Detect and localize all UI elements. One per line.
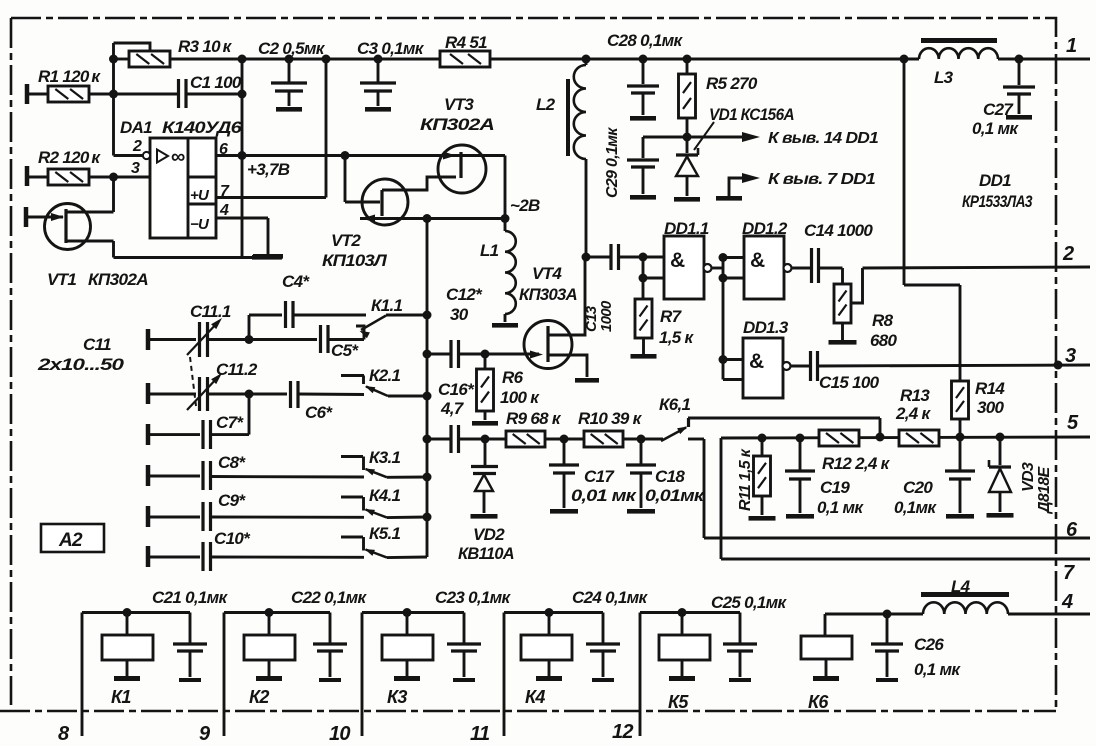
svg-text:R5 270: R5 270 [706,74,758,93]
svg-text:+U: +U [190,187,210,204]
svg-text:С19: С19 [820,478,850,497]
svg-text:С14 1000: С14 1000 [804,221,873,240]
svg-text:VT1: VT1 [47,270,76,289]
svg-text:R6: R6 [502,368,524,387]
svg-text:К выв. 7 DD1: К выв. 7 DD1 [768,171,876,188]
svg-text:R11 1,5 к: R11 1,5 к [737,448,754,511]
svg-text:С25 0,1мк: С25 0,1мк [711,593,788,612]
svg-text:К2: К2 [249,687,269,707]
svg-text:3: 3 [1065,345,1076,367]
svg-text:680: 680 [870,331,898,350]
svg-text:R1 120 к: R1 120 к [38,67,101,86]
svg-text:С12*: С12* [446,285,483,304]
svg-text:&: & [670,249,685,272]
svg-text:К3: К3 [387,687,407,707]
svg-text:КП103Л: КП103Л [322,251,387,270]
svg-text:VT3: VT3 [444,95,474,114]
svg-text:С11: С11 [83,335,111,354]
svg-text:−U: −U [190,216,210,233]
svg-text:6: 6 [1066,519,1078,541]
svg-text:L1: L1 [480,241,499,260]
svg-text:8: 8 [58,723,70,745]
svg-text:R12 2,4 к: R12 2,4 к [822,454,891,473]
svg-text:С7*: С7* [216,413,244,432]
svg-text:0,1 мк: 0,1 мк [972,119,1019,138]
svg-text:R3 10 к: R3 10 к [178,37,233,56]
svg-text:К выв. 14 DD1: К выв. 14 DD1 [768,130,879,147]
svg-text:С28 0,1мк: С28 0,1мк [607,31,684,50]
svg-text:К1: К1 [111,687,131,707]
svg-text:С21 0,1мк: С21 0,1мк [152,588,229,607]
svg-text:С16*: С16* [438,380,475,399]
svg-text:1: 1 [1066,35,1077,57]
svg-text:L2: L2 [536,95,556,114]
svg-text:300: 300 [977,398,1005,417]
svg-text:R9 68 к: R9 68 к [506,409,562,428]
svg-text:С23 0,1мк: С23 0,1мк [435,588,512,607]
svg-text:С6*: С6* [305,403,333,422]
svg-text:&: & [750,249,765,272]
svg-text:С24 0,1мк: С24 0,1мк [572,588,649,607]
svg-text:А2: А2 [58,530,83,551]
svg-text:0,01мк: 0,01мк [645,486,705,505]
svg-text:11: 11 [470,723,490,745]
svg-text:R8: R8 [872,311,894,330]
svg-text:DA1: DA1 [120,118,152,137]
svg-text:4: 4 [1061,591,1073,613]
svg-text:КР1533ЛА3: КР1533ЛА3 [962,192,1033,211]
svg-text:С11.1: С11.1 [190,302,231,321]
svg-text:R13: R13 [900,386,930,405]
svg-text:0,1 мк: 0,1 мк [817,498,864,517]
svg-text:~2В: ~2В [510,196,540,215]
svg-text:К3.1: К3.1 [369,448,401,467]
svg-text:С17: С17 [584,467,615,486]
svg-text:0,1 мк: 0,1 мк [914,660,961,679]
svg-text:7: 7 [1063,562,1075,584]
svg-text:С20: С20 [903,478,933,497]
svg-text:+3,7В: +3,7В [247,160,290,179]
svg-text:С18: С18 [655,467,685,486]
svg-text:С2 0,5мк: С2 0,5мк [258,39,326,58]
svg-text:1,5 к: 1,5 к [659,328,695,347]
svg-text:5: 5 [1067,412,1079,434]
svg-text:КП302А: КП302А [88,270,148,289]
svg-text:С29 0,1мк: С29 0,1мк [604,127,621,198]
svg-text:К6,1: К6,1 [659,395,691,414]
svg-text:К1.1: К1.1 [371,296,403,315]
svg-text:2,4 к: 2,4 к [895,404,932,423]
svg-text:КП303А: КП303А [519,285,577,304]
svg-text:С22 0,1мк: С22 0,1мк [291,588,368,607]
svg-text:DD1.3: DD1.3 [743,318,789,337]
svg-text:12: 12 [612,721,633,743]
svg-text:С3 0,1мк: С3 0,1мк [357,39,425,58]
svg-text:DD1.1: DD1.1 [664,219,709,238]
svg-text:3: 3 [131,160,140,177]
svg-text:30: 30 [450,305,469,324]
svg-text:К4.1: К4.1 [369,486,401,505]
svg-text:С27: С27 [983,100,1014,119]
svg-text:9: 9 [199,723,211,745]
svg-text:КП302А: КП302А [420,115,495,134]
svg-text:1000: 1000 [598,300,615,332]
svg-text:0,1мк: 0,1мк [894,498,937,517]
svg-text:0,01 мк: 0,01 мк [571,486,637,505]
svg-text:VT2: VT2 [331,231,361,250]
svg-text:2: 2 [132,138,142,155]
svg-text:К4: К4 [525,687,545,707]
svg-text:VD3: VD3 [1020,462,1037,492]
svg-text:R4 51: R4 51 [445,33,487,52]
svg-text:К5: К5 [668,692,689,712]
svg-text:VD1 КС156А: VD1 КС156А [709,105,794,124]
svg-text:2х10...50: 2х10...50 [37,355,125,374]
svg-text:∞: ∞ [171,146,185,168]
svg-text:С9*: С9* [218,491,246,510]
svg-text:R10 39 к: R10 39 к [578,409,643,428]
svg-text:С8*: С8* [218,453,246,472]
svg-text:4,7: 4,7 [440,399,465,418]
svg-text:Д818Е: Д818Е [1036,466,1053,515]
svg-text:10: 10 [329,723,350,745]
svg-text:КВ110А: КВ110А [458,544,514,563]
svg-text:R14: R14 [975,379,1005,398]
svg-text:К6: К6 [808,692,829,712]
svg-text:R2 120 к: R2 120 к [38,148,101,167]
svg-text:DD1: DD1 [979,171,1011,190]
svg-text:R7: R7 [660,307,683,326]
svg-text:VD2: VD2 [473,525,505,544]
svg-text:&: & [749,350,764,373]
svg-text:2: 2 [1062,243,1074,265]
svg-text:С5*: С5* [331,341,359,360]
svg-text:С11.2: С11.2 [216,360,258,379]
svg-text:С10*: С10* [214,529,251,548]
svg-text:L3: L3 [934,68,954,87]
svg-text:100 к: 100 к [500,388,540,407]
svg-text:К140УД6: К140УД6 [162,118,242,137]
svg-text:К5.1: К5.1 [369,524,401,543]
svg-text:С1 100: С1 100 [190,73,242,92]
svg-text:С15 100: С15 100 [819,373,880,392]
svg-text:6: 6 [219,141,228,158]
svg-text:С26: С26 [914,635,944,654]
svg-text:VT4: VT4 [532,264,562,283]
svg-text:С4*: С4* [282,272,310,291]
svg-text:DD1.2: DD1.2 [742,219,788,238]
svg-text:К2.1: К2.1 [369,366,401,385]
svg-text:L4: L4 [951,577,971,596]
svg-text:4: 4 [219,202,229,219]
